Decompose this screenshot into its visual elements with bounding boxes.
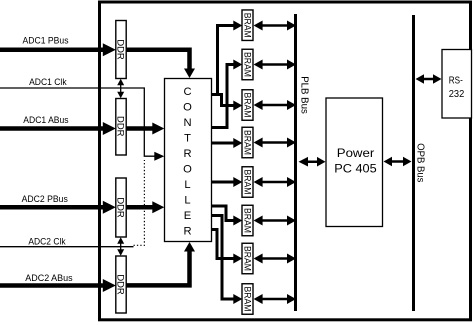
svg-text:ADC1 ABus: ADC1 ABus (23, 115, 68, 126)
svg-text:ADC1 PBus: ADC1 PBus (23, 36, 69, 47)
svg-text:DDR: DDR (116, 116, 127, 137)
svg-text:O: O (183, 164, 192, 176)
svg-text:R: R (183, 148, 191, 160)
svg-text:BRAM: BRAM (242, 208, 252, 233)
svg-text:BRAM: BRAM (242, 287, 252, 312)
svg-text:ADC2 PBus: ADC2 PBus (22, 194, 68, 205)
svg-text:232: 232 (449, 89, 465, 100)
svg-text:L: L (184, 179, 190, 191)
svg-text:BRAM: BRAM (242, 170, 252, 195)
svg-text:BRAM: BRAM (242, 13, 252, 38)
svg-text:N: N (183, 117, 191, 129)
svg-text:R: R (183, 226, 191, 238)
svg-text:C: C (183, 86, 191, 98)
svg-text:E: E (184, 210, 191, 222)
svg-text:Power: Power (337, 146, 375, 160)
svg-text:ADC1 Clk: ADC1 Clk (29, 77, 67, 88)
svg-text:ADC2 Clk: ADC2 Clk (28, 237, 65, 248)
svg-text:BRAM: BRAM (242, 52, 252, 77)
svg-text:ADC2 ABus: ADC2 ABus (25, 273, 72, 284)
svg-text:PC 405: PC 405 (334, 161, 377, 175)
svg-text:O: O (183, 102, 192, 114)
svg-text:L: L (184, 195, 190, 207)
svg-text:RS-: RS- (449, 76, 463, 87)
svg-text:DDR: DDR (116, 39, 127, 60)
svg-text:DDR: DDR (116, 197, 127, 218)
svg-text:DDR: DDR (116, 274, 127, 295)
svg-text:BRAM: BRAM (242, 130, 252, 155)
svg-text:T: T (184, 133, 191, 145)
svg-text:BRAM: BRAM (242, 246, 252, 271)
svg-text:BRAM: BRAM (242, 93, 252, 118)
svg-text:PLB Bus: PLB Bus (298, 76, 309, 114)
svg-text:OPB Bus: OPB Bus (415, 143, 426, 182)
